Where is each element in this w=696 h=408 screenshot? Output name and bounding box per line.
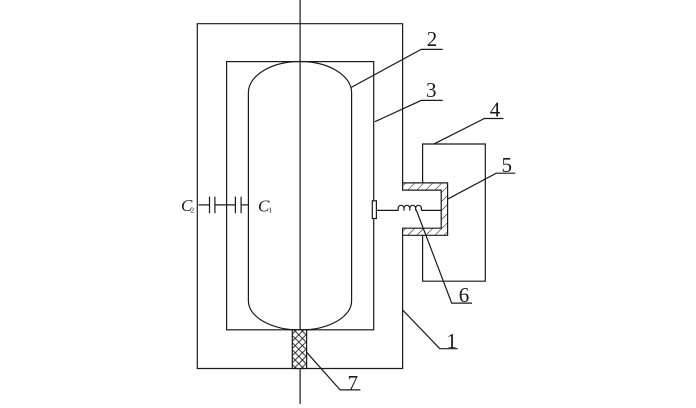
svg-text:2: 2: [427, 27, 438, 51]
feedthrough on cavity wall: [372, 201, 376, 219]
capacitor C1 plates: [234, 197, 236, 214]
svg-text:7: 7: [348, 371, 359, 395]
leader 2: [351, 49, 443, 87]
inner cavity 3: [227, 62, 374, 330]
wire to bulb: [241, 204, 248, 206]
wire coil to port: [421, 209, 441, 211]
svg-text:4: 4: [490, 98, 501, 122]
svg-text:C2: C2: [181, 196, 194, 215]
svg-text:3: 3: [426, 78, 437, 102]
outer enclosure 1: [197, 24, 402, 369]
inductor 6 (coupling loop): [398, 205, 421, 210]
leader 3: [375, 100, 443, 121]
centerline (vertical axis): [299, 0, 301, 404]
svg-text:1: 1: [447, 329, 458, 353]
capacitor C2 plates: [209, 197, 211, 214]
plug 7 (crosshatched stem): [292, 330, 306, 369]
leader 5: [448, 173, 515, 199]
coupling port 5 (hatched C-bracket): [403, 183, 448, 235]
leader 1: [403, 310, 458, 349]
wire between capacitors: [215, 204, 236, 206]
svg-text:6: 6: [459, 283, 470, 307]
leader 6: [416, 210, 472, 304]
box 4: [423, 144, 486, 281]
wire left capacitor chain: [198, 204, 209, 206]
leader 7: [307, 352, 361, 390]
svg-text:C1: C1: [258, 197, 272, 216]
bulb 2: [248, 61, 351, 330]
svg-text:5: 5: [502, 153, 513, 177]
wire to coil: [376, 209, 398, 211]
leader 4: [434, 119, 504, 145]
